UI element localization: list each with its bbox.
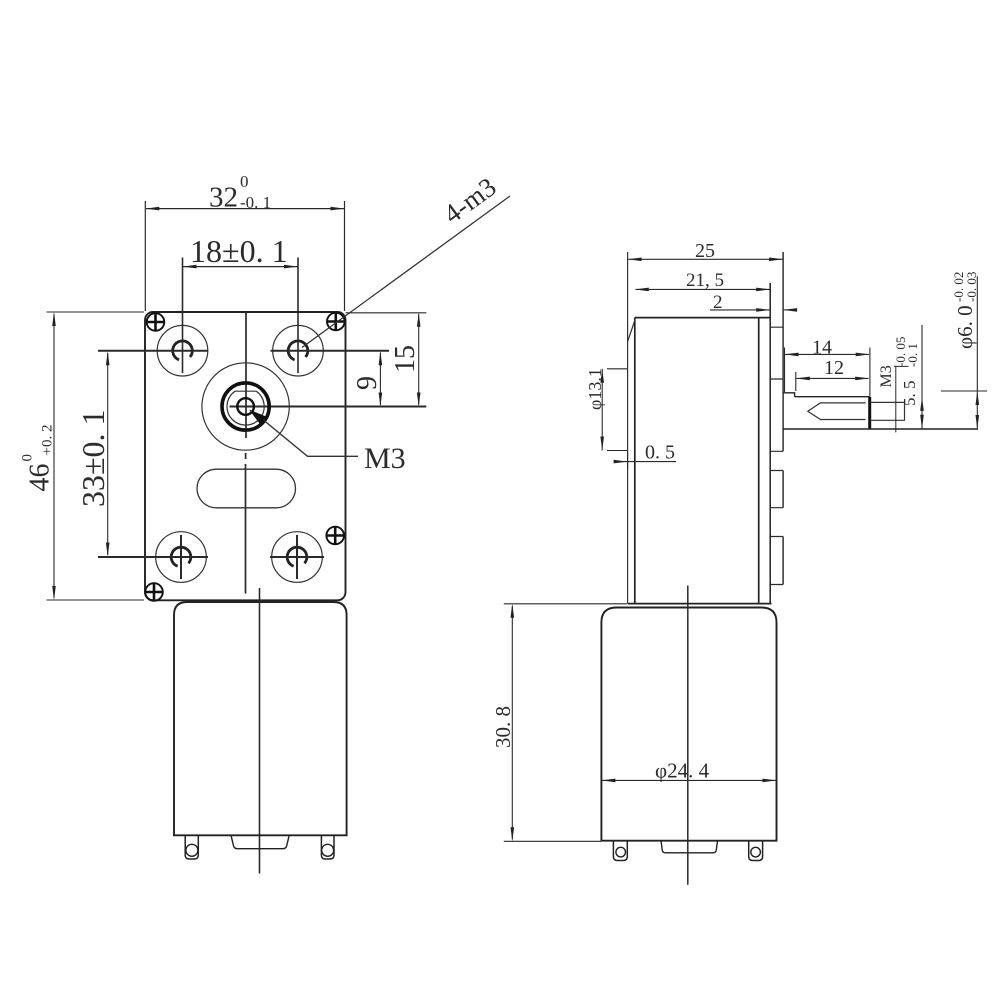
top edge right extension: [346, 312, 427, 314]
shaft shoulder: [783, 393, 795, 397]
svg-text:33±0. 1: 33±0. 1: [75, 409, 111, 507]
svg-text:14: 14: [812, 337, 832, 359]
svg-text:12: 12: [824, 357, 844, 379]
dim phi6.0 text: [951, 272, 979, 349]
motor body front view: [174, 602, 347, 835]
shaft bottom edge: [784, 428, 978, 430]
dim 0.5: [615, 461, 677, 463]
hole top-right: [271, 258, 390, 377]
dim 21.5: [636, 288, 770, 290]
dim phi6.0: [976, 276, 978, 430]
svg-text:M3: M3: [878, 365, 895, 387]
brush cap tab side: [661, 841, 718, 853]
hole top-left: [98, 258, 208, 377]
dim 5.5 text: [893, 337, 920, 406]
hub outer circle: [202, 363, 289, 450]
dim 2: [710, 309, 770, 311]
plate horizontal steps: [770, 327, 783, 584]
side gearbox rear face: [758, 318, 760, 604]
gearbox body outline: [145, 312, 346, 600]
hub thick circle: [222, 383, 269, 430]
svg-text:-0. 1: -0. 1: [240, 193, 271, 212]
hub D-shaped circle: [227, 391, 264, 425]
dim 46 text: [20, 425, 56, 492]
dim 46 left: [47, 312, 145, 600]
svg-text:2: 2: [713, 292, 723, 313]
hole bottom-left: [98, 532, 208, 583]
brush cap tab front: [231, 835, 289, 848]
svg-text:9: 9: [352, 376, 383, 390]
svg-text:25: 25: [695, 240, 715, 262]
svg-text:0. 5: 0. 5: [645, 442, 675, 464]
svg-text:15: 15: [390, 345, 421, 373]
dim 9: [379, 353, 381, 406]
front chamfer: [628, 321, 635, 342]
dim phi24.4: [602, 779, 776, 781]
svg-text:M3: M3: [364, 442, 406, 475]
svg-text:21, 5: 21, 5: [686, 270, 724, 291]
side gearbox bottom edge: [628, 603, 772, 605]
boss face line: [627, 252, 629, 604]
motor body side view: [601, 608, 776, 841]
mounting plate front edge: [769, 283, 771, 604]
shaft top edge: [795, 396, 870, 398]
svg-text:φ13.1: φ13.1: [585, 368, 605, 410]
svg-text:-0. 1: -0. 1: [905, 343, 920, 367]
mounting plate rear edge segments: [782, 252, 784, 585]
obround slot: [197, 469, 296, 508]
screw bottom-right: [326, 527, 344, 545]
hub horizontal centerline: [230, 406, 427, 408]
dim 14: [784, 348, 786, 393]
svg-text:32: 32: [209, 182, 238, 214]
motor centerline side: [687, 586, 689, 885]
hub small circle: [237, 398, 254, 415]
dim 12: [795, 372, 797, 391]
svg-text:0: 0: [240, 172, 249, 191]
terminal left front: [185, 835, 198, 859]
side gearbox front face: [634, 318, 636, 604]
svg-text:-0. 03: -0. 03: [964, 272, 979, 302]
dim 15: [418, 314, 420, 405]
4-m3 leader: [302, 196, 510, 348]
svg-text:φ6. 0: φ6. 0: [953, 305, 977, 349]
dim phi13.1: [607, 369, 627, 451]
svg-text:φ24. 4: φ24. 4: [655, 759, 710, 783]
M3 leader arrow: [249, 410, 269, 426]
dim 5.5: [921, 325, 923, 429]
dim 30.8: [504, 603, 627, 605]
svg-text:18±0. 1: 18±0. 1: [190, 233, 288, 269]
terminal left side: [613, 841, 627, 861]
screw bottom-left: [145, 583, 163, 601]
svg-text:46: 46: [25, 464, 56, 492]
gearbox vertical centerline: [245, 312, 248, 594]
hole bottom-right: [270, 532, 324, 583]
terminal right side: [749, 841, 763, 861]
screw top-left: [147, 313, 165, 331]
dim 32 top: [145, 201, 344, 311]
shaft/thread boundary: [868, 397, 871, 429]
dim 33: [107, 353, 109, 555]
dim 25: [628, 258, 782, 260]
M3 threaded stub: [870, 402, 905, 420]
svg-text:+0. 2: +0. 2: [40, 425, 56, 456]
svg-text:30. 8: 30. 8: [491, 706, 515, 748]
terminal right front: [321, 835, 334, 859]
worm outline: [808, 403, 866, 420]
screw top-right: [327, 313, 345, 331]
motor centerline front: [259, 588, 261, 874]
svg-text:5. 5: 5. 5: [900, 381, 919, 407]
dim 18: [183, 266, 298, 268]
side gearbox top edge: [635, 317, 770, 319]
svg-text:0: 0: [20, 454, 36, 462]
